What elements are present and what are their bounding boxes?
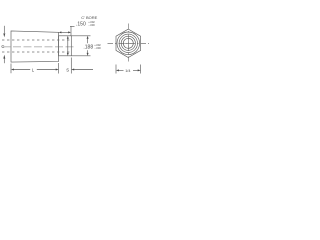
svg-text:−.000: −.000: [88, 23, 95, 27]
svg-text:S: S: [66, 68, 69, 73]
svg-text:1/4: 1/4: [125, 69, 130, 73]
svg-text:−.000: −.000: [94, 46, 101, 50]
svg-text:C' BORE: C' BORE: [81, 15, 97, 20]
svg-text:C: C: [1, 44, 4, 49]
svg-text:.188: .188: [83, 44, 93, 50]
svg-text:.150: .150: [76, 22, 86, 28]
